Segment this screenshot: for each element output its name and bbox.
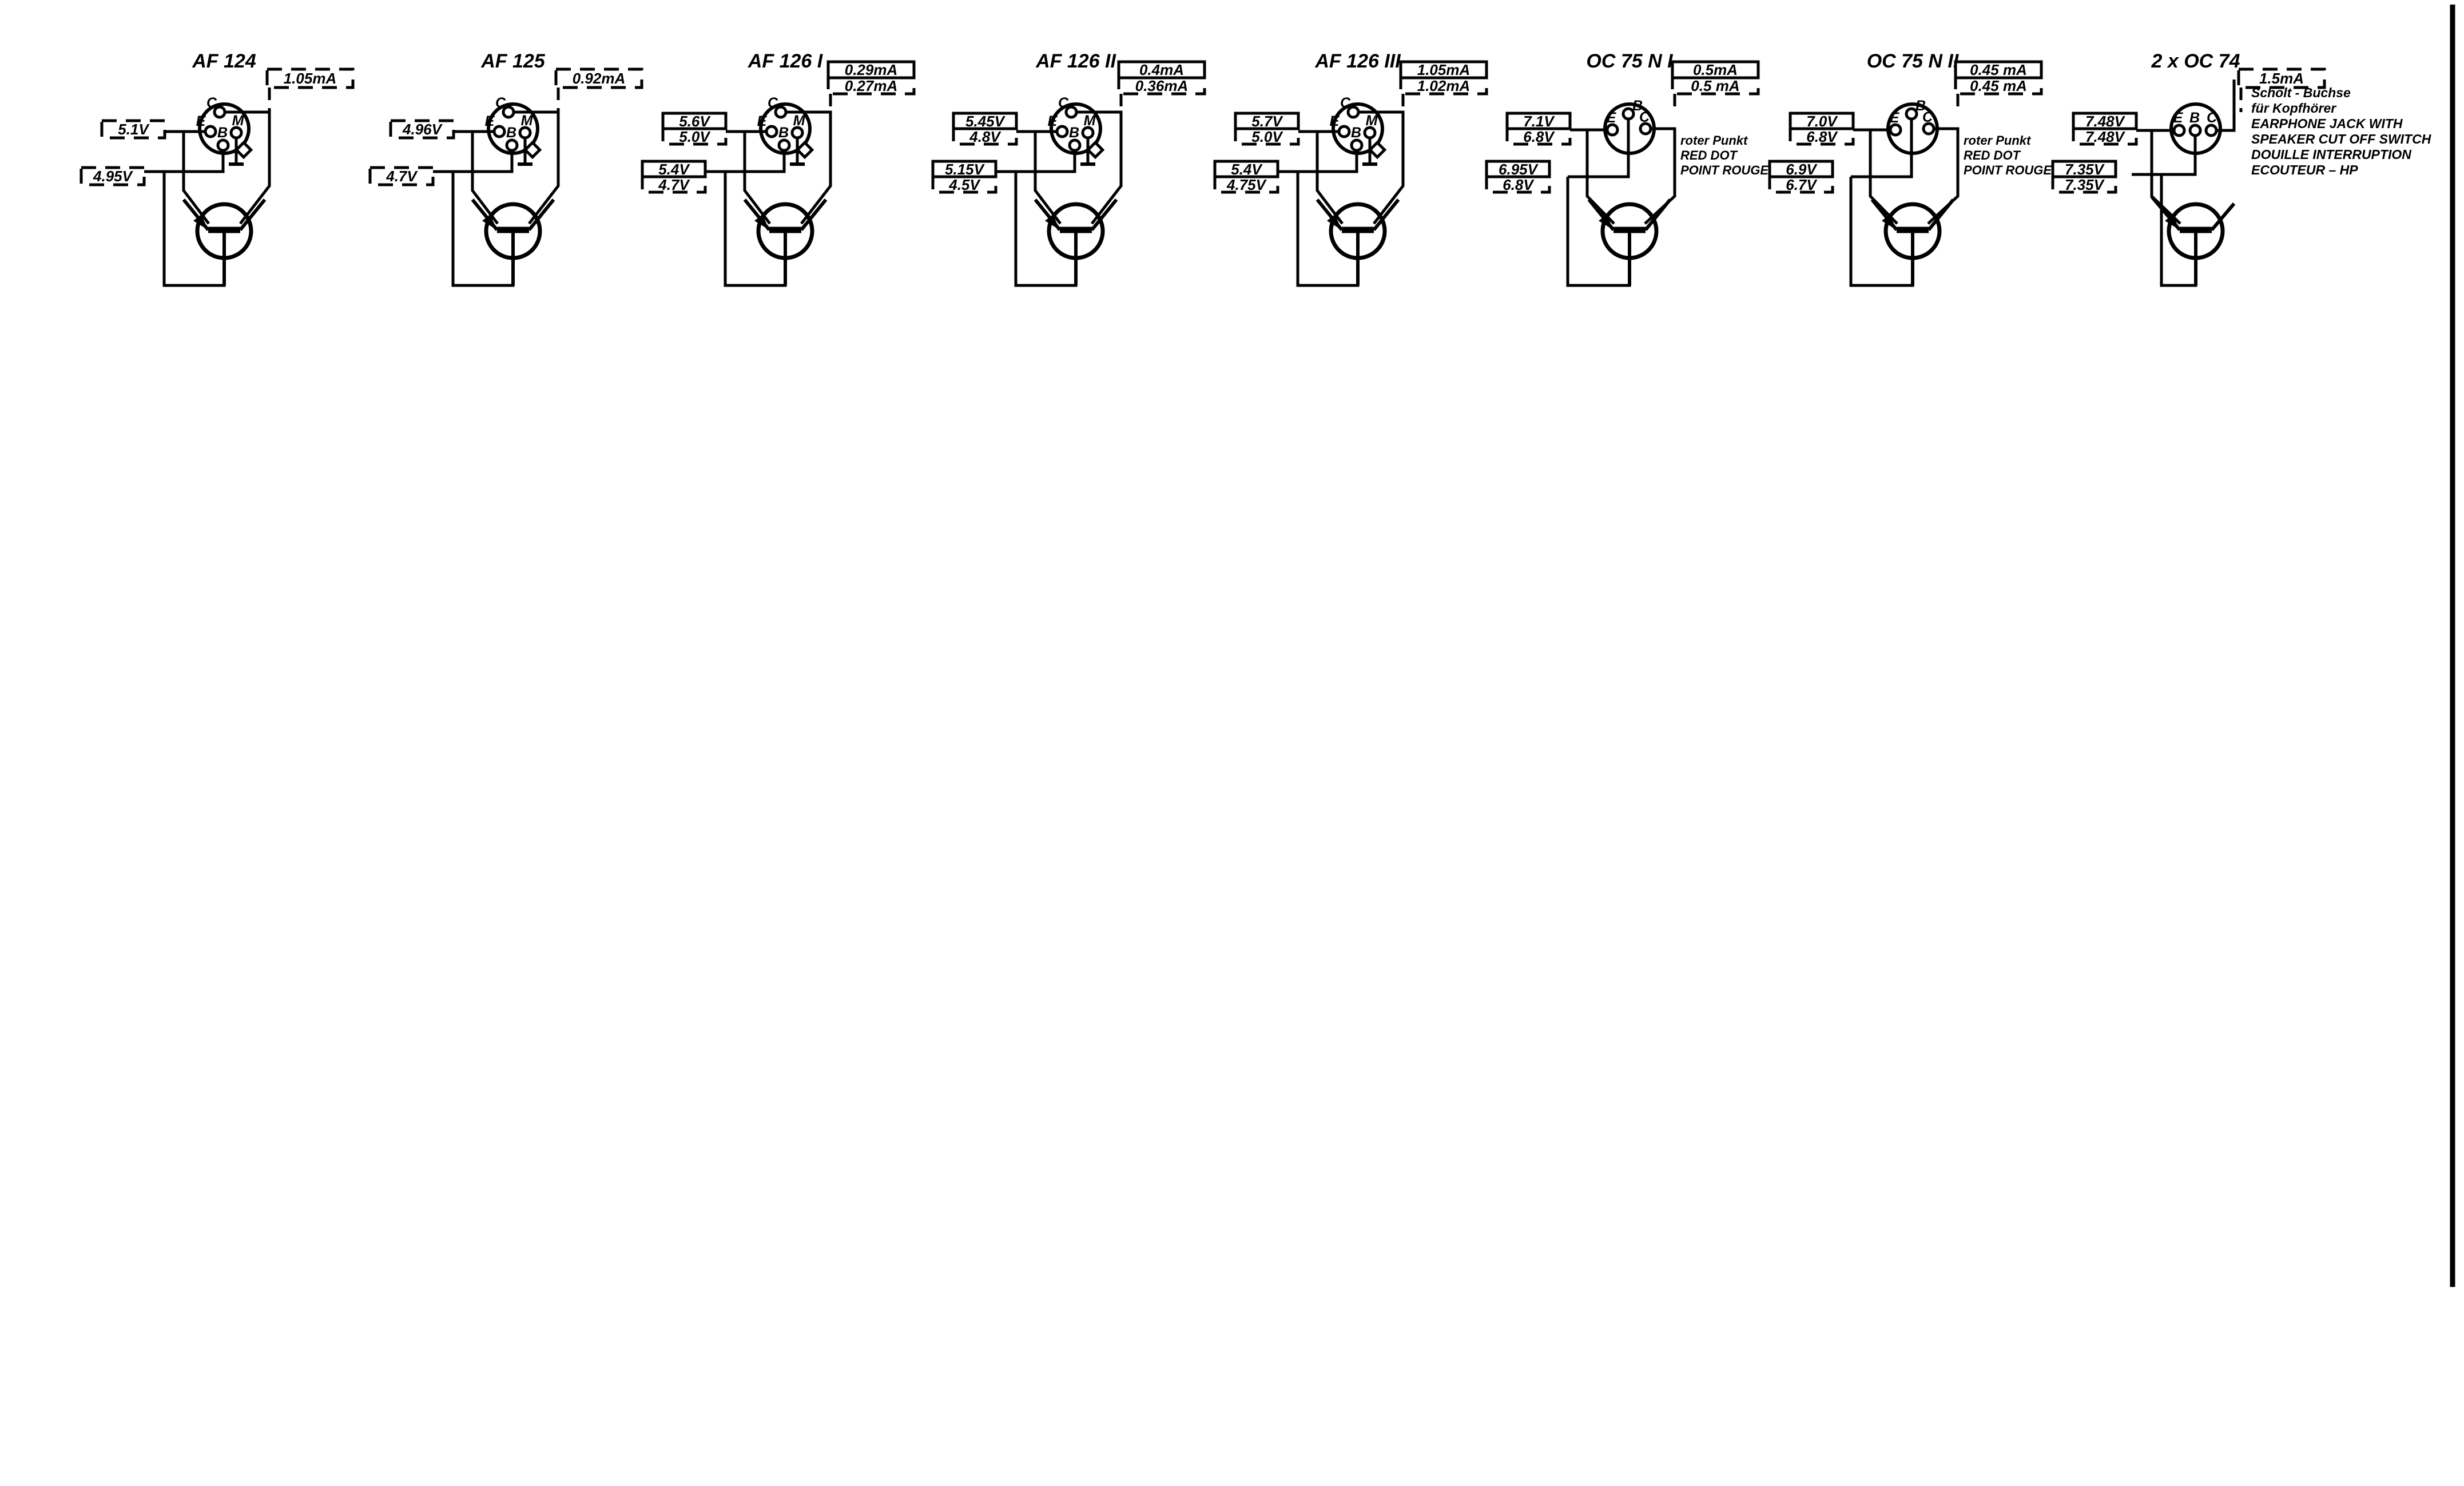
svg-text:AF 125: AF 125 <box>480 50 546 72</box>
emitter drop <box>1317 132 1342 224</box>
transistor symbol OC75NI pkg <box>1603 204 1656 258</box>
svg-text:ECOUTEUR – HP: ECOUTEUR – HP <box>2251 162 2358 177</box>
base loop <box>1568 177 1630 285</box>
transistor symbol AF125 pkg <box>486 204 540 258</box>
svg-text:B: B <box>778 125 789 141</box>
svg-text:E: E <box>485 113 495 129</box>
svg-text:POINT ROUGE: POINT ROUGE <box>1680 163 1769 177</box>
svg-text:DOUILLE INTERRUPTION: DOUILLE INTERRUPTION <box>2251 147 2411 162</box>
wire to collector <box>557 88 560 112</box>
base loop <box>453 172 513 285</box>
M pin lead <box>524 138 527 164</box>
package pinout AF125 pkg <box>488 104 538 153</box>
svg-text:1.05mA: 1.05mA <box>284 70 337 87</box>
svg-text:POINT ROUGE: POINT ROUGE <box>1964 163 2052 177</box>
emitter wire <box>1853 129 1890 132</box>
M pin lead <box>1369 138 1372 164</box>
transistor symbol AF126II pkg <box>1049 204 1103 258</box>
package pinout AF124 pkg <box>200 104 249 153</box>
svg-text:C: C <box>1058 95 1069 111</box>
package pinout AF126II pkg <box>1051 104 1100 153</box>
svg-text:7.48V: 7.48V <box>2085 128 2126 145</box>
svg-text:4.96V: 4.96V <box>402 121 443 138</box>
package pinout AF126III pkg <box>1333 104 1382 153</box>
svg-text:0.5 mA: 0.5 mA <box>1691 77 1739 94</box>
package tab <box>236 142 251 157</box>
wire to collector <box>829 94 832 112</box>
svg-text:SPEAKER CUT OFF SWITCH: SPEAKER CUT OFF SWITCH <box>2251 132 2431 146</box>
svg-text:0.36mA: 0.36mA <box>1135 77 1189 94</box>
svg-text:6.8V: 6.8V <box>1503 176 1535 193</box>
svg-text:AF 126 III: AF 126 III <box>1314 50 1401 72</box>
svg-text:C: C <box>1639 109 1650 125</box>
svg-text:OC 75 N II: OC 75 N II <box>1867 50 1960 72</box>
base loop <box>1851 177 1913 285</box>
base wire <box>1278 150 1357 172</box>
svg-text:E: E <box>1607 110 1617 126</box>
wire to collector <box>1402 94 1405 112</box>
transistor detail block AF126I pkg <box>642 50 914 285</box>
collector wire <box>1928 129 1958 224</box>
svg-text:4.7V: 4.7V <box>658 176 690 193</box>
svg-text:4.5V: 4.5V <box>948 176 981 193</box>
transistor symbol AF124 pkg <box>197 204 251 258</box>
emitter drop <box>472 132 498 224</box>
base loop <box>1016 172 1076 285</box>
emitter wire <box>165 130 205 133</box>
svg-text:6.8V: 6.8V <box>1523 128 1555 145</box>
M pin lead <box>1087 138 1090 164</box>
svg-text:M: M <box>1366 113 1378 129</box>
transistor symbol OC75NII pkg <box>1886 204 1940 258</box>
svg-text:1.05mA: 1.05mA <box>1417 61 1471 78</box>
base loop <box>1298 172 1358 285</box>
base wire <box>2132 136 2195 174</box>
emitter drop <box>1587 130 1614 224</box>
base loop <box>164 172 224 285</box>
svg-text:E: E <box>757 113 768 129</box>
svg-text:6.7V: 6.7V <box>1786 176 1818 193</box>
emitter wire <box>454 130 494 133</box>
svg-text:Scholt - Buchse: Scholt - Buchse <box>2251 85 2351 100</box>
emitter drop <box>184 132 209 224</box>
svg-text:RED DOT: RED DOT <box>1964 148 2021 162</box>
emitter wire <box>2136 129 2174 132</box>
package pinout OC75NII pkg <box>1888 104 1937 153</box>
svg-text:E: E <box>196 113 206 129</box>
wire to collector <box>2240 88 2243 112</box>
transistor detail block OC74 pkg <box>2053 50 2324 285</box>
svg-text:M: M <box>793 113 806 129</box>
transistor symbol OC74 pkg <box>2169 204 2223 258</box>
emitter drop <box>745 132 770 224</box>
svg-text:0.4mA: 0.4mA <box>1139 61 1184 78</box>
svg-text:4.75V: 4.75V <box>1226 176 1267 193</box>
base wire <box>996 150 1075 172</box>
transistor detail block AF126III pkg <box>1215 50 1487 285</box>
svg-text:OC 75 N I: OC 75 N I <box>1586 50 1674 72</box>
svg-text:M: M <box>521 113 534 129</box>
svg-text:B: B <box>1351 125 1361 141</box>
package pinout OC75NI pkg <box>1605 104 1654 153</box>
emitter wire <box>1016 130 1057 133</box>
svg-text:B: B <box>2189 110 2200 126</box>
transistor detail block AF126II pkg <box>933 50 1205 285</box>
base wire <box>705 150 784 172</box>
svg-text:0.92mA: 0.92mA <box>573 70 626 87</box>
svg-text:C: C <box>495 95 506 111</box>
base loop <box>2161 174 2196 285</box>
transistor detail block AF125 pkg <box>370 50 642 285</box>
svg-text:C: C <box>2207 110 2217 126</box>
base wire <box>1568 119 1628 177</box>
M pin lead <box>796 138 799 164</box>
svg-text:0.27mA: 0.27mA <box>845 77 898 94</box>
collector wire <box>514 112 558 224</box>
svg-text:5.0V: 5.0V <box>1251 128 1283 145</box>
svg-text:C: C <box>1922 109 1933 125</box>
transistor detail block OC75NII pkg <box>1770 50 2052 285</box>
transistor detail block AF124 pkg <box>81 50 353 285</box>
sheet border right <box>2450 5 2455 1287</box>
package tab <box>1088 142 1102 157</box>
svg-text:AF 124: AF 124 <box>192 50 256 72</box>
svg-text:EARPHONE JACK WITH: EARPHONE JACK WITH <box>2251 116 2403 131</box>
package tab <box>1370 142 1384 157</box>
svg-text:0.45 mA: 0.45 mA <box>1970 61 2027 78</box>
transistor detail block OC75NI pkg <box>1487 50 1769 285</box>
svg-text:5.0V: 5.0V <box>679 128 711 145</box>
svg-text:0.45 mA: 0.45 mA <box>1970 77 2027 94</box>
base loop <box>725 172 785 285</box>
svg-text:B: B <box>217 125 228 141</box>
collector wire <box>1076 112 1121 224</box>
collector wire <box>1358 112 1403 224</box>
svg-text:M: M <box>232 113 245 129</box>
collector wire <box>786 112 830 224</box>
svg-text:M: M <box>1084 113 1096 129</box>
emitter drop <box>2152 130 2180 224</box>
emitter wire <box>726 130 766 133</box>
svg-text:B: B <box>1069 125 1079 141</box>
svg-text:roter Punkt: roter Punkt <box>1964 133 2032 148</box>
svg-text:4.7V: 4.7V <box>386 168 418 185</box>
svg-text:2 x OC 74: 2 x OC 74 <box>2151 50 2240 72</box>
svg-text:1.02mA: 1.02mA <box>1417 77 1471 94</box>
svg-text:C: C <box>768 95 778 111</box>
svg-text:roter Punkt: roter Punkt <box>1680 133 1748 148</box>
svg-text:B: B <box>506 125 516 141</box>
svg-text:5.1V: 5.1V <box>118 121 150 138</box>
svg-text:C: C <box>1340 95 1351 111</box>
svg-text:E: E <box>1330 113 1340 129</box>
emitter drop <box>1035 132 1060 224</box>
svg-text:0.29mA: 0.29mA <box>845 61 898 78</box>
svg-text:für Kopfhörer: für Kopfhörer <box>2251 101 2336 116</box>
svg-text:1.5mA: 1.5mA <box>2259 70 2304 87</box>
base wire <box>144 150 223 172</box>
base wire <box>1851 119 1911 177</box>
package pinout OC74 pkg <box>2171 104 2220 153</box>
svg-text:6.8V: 6.8V <box>1806 128 1838 145</box>
wire to collector <box>1957 94 1960 112</box>
emitter drop <box>1870 130 1897 224</box>
svg-text:AF 126 I: AF 126 I <box>748 50 824 72</box>
svg-text:E: E <box>1048 113 1058 129</box>
svg-text:4.95V: 4.95V <box>93 168 134 185</box>
wire to collector <box>1674 94 1676 112</box>
package tab <box>525 142 539 157</box>
base wire <box>433 150 512 172</box>
svg-text:E: E <box>2173 110 2184 126</box>
transistor symbol AF126I pkg <box>758 204 812 258</box>
svg-text:0.5mA: 0.5mA <box>1693 61 1738 78</box>
emitter wire <box>1570 129 1607 132</box>
transistor symbol AF126III pkg <box>1331 204 1385 258</box>
emitter wire <box>1298 130 1339 133</box>
package tab <box>797 142 812 157</box>
svg-text:4.8V: 4.8V <box>969 128 1002 145</box>
svg-text:E: E <box>1890 110 1900 126</box>
collector wire <box>225 112 269 224</box>
collector wire <box>2216 80 2234 130</box>
svg-text:C: C <box>206 95 217 111</box>
wire to collector <box>1120 94 1123 112</box>
package pinout AF126I pkg <box>761 104 810 153</box>
svg-text:RED DOT: RED DOT <box>1680 148 1738 162</box>
svg-text:7.35V: 7.35V <box>2065 176 2105 193</box>
M pin lead <box>235 138 238 164</box>
svg-text:AF 126 II: AF 126 II <box>1035 50 1116 72</box>
collector wire <box>1645 129 1675 224</box>
wire to collector <box>268 88 271 112</box>
